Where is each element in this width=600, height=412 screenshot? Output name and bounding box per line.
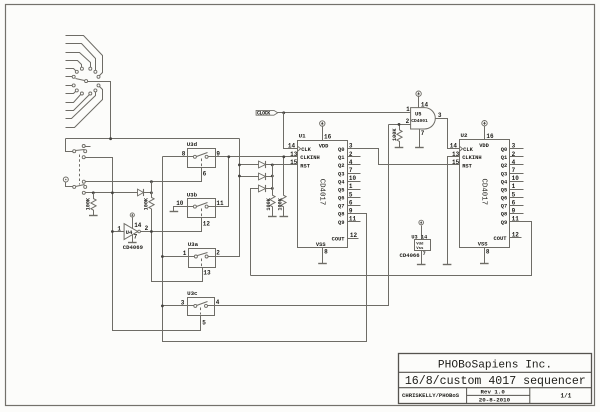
wire rotary common to mode bus [88,82,111,139]
ground U1 [318,263,327,265]
ground R4 [280,216,289,218]
svg-text:6: 6 [203,171,207,178]
svg-text:COUT: COUT [494,236,508,242]
rotary SW1 contact 7 [72,84,75,87]
wire U2 CLKINH to ground [448,157,460,265]
resistor R5 100K [397,124,402,147]
wire U3 pin7 ground lead [421,251,423,265]
rotary SW1 position-6 lead wire [66,76,74,78]
analog switch U3a box [189,249,216,268]
svg-text:16: 16 [486,133,494,140]
rotary SW1 contact 4 [80,67,83,70]
junction U4 input [111,230,114,233]
svg-text:16: 16 [324,133,332,140]
svg-text:4: 4 [512,159,516,166]
wire U2 Q5 stub [510,189,524,191]
wire U2 Q1 stub [510,156,524,158]
svg-text:7: 7 [349,167,353,174]
svg-text:1: 1 [183,250,187,257]
wire U2 Q2 stub [510,164,524,166]
wire U3d output to U1 CLKINH [216,156,298,158]
svg-text:3: 3 [438,112,442,119]
U1 CLK wedge [298,146,301,151]
gate U5 body [411,108,436,129]
svg-text:5: 5 [349,191,353,198]
power symbol U1 VDD [320,121,325,126]
wire R2 bottom to U3a control [152,232,203,282]
svg-text:5: 5 [202,319,206,326]
svg-text:RST: RST [300,163,310,169]
power symbol U2 VDD [482,121,487,126]
svg-text:VSS: VSS [478,242,488,248]
junction net192/S2a vertical [111,191,114,194]
rotary SW1 position-8 lead wire [66,91,77,94]
switch S2b upper throw contact [82,180,85,183]
diode D1 [259,161,266,168]
wire U1 COUT stub [348,238,359,240]
svg-text:6: 6 [349,199,353,206]
analog switch U3d wiper [197,153,208,157]
analog switch U3b right contact [205,205,208,208]
svg-text:Q5: Q5 [501,188,507,194]
svg-text:U4: U4 [126,229,133,236]
analog switch U3a right contact [205,255,208,258]
wire D3 row down to Q9 bus [251,189,273,276]
rotary SW1 position-1 lead wire [66,36,103,77]
rotary SW1 contact 2 [94,70,97,73]
svg-text:U3b: U3b [187,192,198,199]
svg-text:U3a: U3a [188,241,199,248]
svg-text:14: 14 [421,234,427,240]
svg-text:8: 8 [324,248,328,255]
svg-text:CD4001: CD4001 [411,118,428,124]
wire U2 Q0 stub [510,148,524,150]
svg-text:Vdd: Vdd [416,241,424,246]
analog switch U3a left contact [194,255,197,258]
svg-text:Q1: Q1 [338,155,344,161]
wire U4 pin14 power lead [132,218,134,229]
analog switch U3c box [188,298,215,316]
inverter U4 output bubble [138,230,141,233]
wire U1 Q8 net vertical and bus [163,157,367,342]
svg-text:13: 13 [290,151,298,158]
svg-text:7: 7 [512,167,516,174]
wire D2 row [240,176,273,178]
wire U2 pin16 power lead [484,126,486,140]
analog switch U3a left pin lead [189,256,195,258]
svg-text:2: 2 [512,151,516,158]
rotary SW1 contact 1 [97,75,100,78]
svg-text:Q0: Q0 [338,147,344,153]
wire U2 Q6 stub [510,197,524,199]
ground U2 [480,263,489,265]
wire U1 Q3 stub [348,173,361,175]
wire S2b lower throw through D4 [86,192,152,194]
wire U1 pin8 ground lead [322,248,324,264]
svg-text:Q7: Q7 [501,204,507,210]
switch S2a wiper [76,150,85,151]
wire U3c output bus to U5 pin2 [215,125,389,306]
svg-text:CD4017: CD4017 [318,179,326,206]
svg-text:CHRISKELLY/PHOBoS: CHRISKELLY/PHOBoS [402,392,460,399]
title block vertical divider 2 [529,388,531,404]
diode D2 [259,173,266,180]
svg-text:CLOCK: CLOCK [257,111,270,117]
wire U1 pin16 power lead [322,127,324,141]
svg-text:3: 3 [181,299,185,306]
svg-text:VDD: VDD [479,143,489,149]
rotary SW1 position-2 lead wire [66,44,96,72]
junction D2 cathode [271,175,274,178]
svg-text:14: 14 [421,102,429,109]
svg-text:100K: 100K [392,128,398,141]
svg-text:14: 14 [134,222,142,229]
wire U2 Q8 stub [510,213,524,215]
power symbol U4 VDD [130,213,134,217]
resistor R2 100K [149,193,154,232]
svg-text:CD4066: CD4066 [400,252,421,259]
svg-text:Q4: Q4 [501,179,508,185]
svg-text:PHOBoSapiens Inc.: PHOBoSapiens Inc. [438,359,552,371]
svg-text:U3: U3 [411,234,417,240]
wire U2 Q3 stub [510,173,524,175]
svg-text:9: 9 [512,207,516,214]
svg-text:Q9: Q9 [338,220,344,226]
svg-text:8: 8 [486,248,490,255]
junction Q8 net / U3c input [161,305,164,308]
wire CLOCK down to U1 CLK [284,113,298,149]
rotary SW1 position-11 lead wire [66,91,96,119]
ground R3 [268,216,277,218]
svg-text:10: 10 [349,175,357,182]
junction D3 cathode [271,187,274,190]
svg-text:U3c: U3c [187,290,198,297]
wire U1 Q1 stub [348,156,361,158]
wire U1 Q6 stub [348,197,361,199]
analog switch U3c right pin lead [208,305,215,307]
wire R3 top segment [272,165,274,193]
svg-text:Q2: Q2 [338,163,344,169]
wire U2 pin8 ground lead [484,248,486,264]
switch S2b wiper [76,185,85,187]
svg-text:VDD: VDD [319,143,329,149]
rotary SW1 position-4 lead wire [66,61,82,69]
counter U2 box [460,140,510,248]
wire U5 pin7 ground lead [419,130,421,148]
wire U2 Q4 stub [510,181,524,183]
svg-text:CD4069: CD4069 [123,244,144,251]
svg-text:CLKINH: CLKINH [462,155,481,161]
analog switch U3c control dash [200,308,202,315]
junction D1 cathode [271,164,274,167]
wire S2a lower throw to U3c control net [86,158,201,331]
svg-text:1: 1 [512,183,516,190]
rotary SW1 position-10 lead wire [66,94,91,111]
svg-text:CLK: CLK [301,147,311,153]
junction R4 / CLKINH [282,155,285,158]
analog switch U3d right contact [205,155,208,158]
junction R5 / U5 pin2 [398,123,401,126]
svg-text:CLKINH: CLKINH [300,155,319,161]
svg-text:11: 11 [216,200,224,207]
svg-text:U5: U5 [415,112,421,118]
svg-text:11: 11 [349,216,357,223]
analog switch U3a control dash [201,259,203,267]
wire U2 Q7 stub [510,205,524,207]
ground U5 [415,147,424,149]
wire CLOCK to U5 pin1 [278,112,411,114]
svg-text:1: 1 [349,183,353,190]
wire Q8 net to U3d input [163,156,188,158]
svg-text:15: 15 [452,159,460,166]
svg-text:U1: U1 [299,133,306,140]
svg-text:Rev 1.0: Rev 1.0 [481,389,506,396]
rotary SW1 position-9 lead wire [66,94,82,103]
rotary SW1 contact 11 [94,89,97,92]
mechanical link S2 dashed [79,155,81,185]
svg-text:100K: 100K [278,197,284,210]
analog switch U3d right pin lead [209,156,216,158]
svg-text:2: 2 [216,250,220,257]
wire D1 row to U1 RST [240,164,298,166]
svg-text:20-8-2010: 20-8-2010 [479,396,511,403]
ground U3b input [170,211,179,213]
svg-text:2: 2 [406,118,410,125]
analog switch U3d left contact [193,155,196,158]
wire J1 to S2b pole [66,183,73,187]
svg-text:14: 14 [450,143,458,150]
analog switch U3a wiper [198,253,208,256]
wire U5 pin2 lead [389,124,411,126]
wire S2a upper throw stub [86,146,91,148]
title block divider 2 [399,387,592,389]
rotary SW1 position-12 lead wire [66,86,103,128]
junction D4 cathode/R2 [150,191,153,194]
svg-text:2: 2 [349,151,353,158]
junction Q8 net / U3a input [161,255,164,258]
title block vertical divider 1 [466,388,468,404]
analog switch U3c wiper [197,302,208,306]
switch S2a upper throw contact [82,145,85,148]
switch S2b pole contact [73,185,76,188]
analog switch U3c left pin lead [188,305,194,307]
svg-text:1: 1 [406,106,410,113]
analog switch U3b box [188,199,216,218]
svg-text:3: 3 [512,143,516,150]
svg-text:1/1: 1/1 [561,393,572,400]
svg-text:1: 1 [117,226,121,233]
diode D3 [259,185,266,192]
analog switch U3b left pin lead [188,206,194,208]
junction D1 anode [238,164,241,167]
ground R1 [89,215,98,217]
svg-text:Q8: Q8 [338,212,344,218]
svg-text:16/8/custom 4017 sequencer: 16/8/custom 4017 sequencer [405,375,586,388]
switch S2b middle contact [84,185,87,188]
switch S2a lower throw contact [82,156,85,159]
net tag CLOCK [256,110,278,115]
svg-text:CLK: CLK [463,147,473,153]
svg-text:U3d: U3d [187,141,198,148]
rotary SW1 position-5 lead wire [66,69,77,72]
analog switch U3a right pin lead [209,256,216,258]
junction CLOCK branch [282,111,285,114]
rotary SW1 contact 10 [89,92,92,95]
svg-text:Q8: Q8 [501,212,507,218]
svg-text:Q2: Q2 [501,163,507,169]
wire U1 Q0 to U2 RST [348,149,460,165]
junction R1 top [92,191,95,194]
analog switch U3d control dash [201,159,203,167]
wire bus181 to R2 [151,182,153,195]
rotary SW1 position-7 lead wire [66,85,74,87]
svg-text:15: 15 [290,159,298,166]
analog switch U3b left contact [193,205,196,208]
rotary SW1 contact 8 [75,89,78,92]
wire U2 COUT stub [510,237,522,239]
rotary SW1 wiper pivot [85,80,88,83]
svg-text:Q3: Q3 [338,171,344,177]
connector J1 pin [63,177,68,182]
wire U4 pin7 ground lead [132,235,134,243]
svg-text:100K: 100K [85,197,91,210]
svg-text:Q3: Q3 [501,171,507,177]
title block rev divider [467,394,530,396]
rotary SW1 contact 6 [72,75,75,78]
power symbol U5 VDD [416,91,421,96]
wire U3 pin14 power lead [421,226,423,240]
analog switch U3c right contact [205,304,208,307]
wire U4 input [113,231,125,233]
junction rotary common / mode bus [109,137,112,140]
rotary SW1 wiper arm [76,79,85,81]
svg-text:4: 4 [349,159,353,166]
power symbol U3 VDD [419,220,424,225]
title block divider 1 [399,371,592,373]
svg-text:7: 7 [421,130,425,137]
svg-text:7: 7 [423,251,426,257]
svg-text:100K: 100K [143,197,149,210]
wire U5 output to U2 CLK [436,119,460,149]
switch S2a middle contact [84,150,87,153]
wire U1 Q9 stub [348,221,361,223]
svg-text:12: 12 [512,232,520,239]
junction U4 output / R2 [150,230,153,233]
wire U1 Q2 stub [348,164,361,166]
ground U3 [417,264,426,266]
title block outer box [399,354,592,404]
wire U3b output up to CLKINH net [216,157,229,207]
svg-text:12: 12 [203,221,211,228]
wire U2 Q9 to D3 bus [251,222,532,276]
wire mode bus y139 [66,138,240,140]
svg-text:10: 10 [512,175,520,182]
svg-text:Q6: Q6 [501,196,507,202]
diode D4 [138,189,144,196]
svg-text:7: 7 [134,234,138,241]
svg-text:VSS: VSS [316,242,326,248]
wire U5 pin14 power lead [418,97,420,108]
svg-text:6: 6 [512,199,516,206]
svg-text:Q4: Q4 [338,179,345,185]
svg-text:13: 13 [203,269,211,276]
U2 CLK wedge [460,146,463,151]
svg-text:9: 9 [349,207,353,214]
rotary SW1 position-3 lead wire [66,53,91,69]
svg-text:3: 3 [349,143,353,150]
counter U1 box [298,141,348,248]
rotary SW1 contact 3 [89,67,92,70]
wire U1 Q4 stub [348,181,361,183]
svg-text:5: 5 [512,191,516,198]
svg-text:CD4017: CD4017 [479,178,487,205]
resistor R3 100K [270,165,275,217]
switch S2b lower throw contact [82,191,85,194]
resistor R4 100K [281,157,286,217]
wire U4 output to U3b control [141,218,202,232]
rotary SW1 contact 9 [80,92,83,95]
wire U1 Q5 stub [348,189,361,191]
U3 power block box [415,240,431,251]
svg-text:Q6: Q6 [338,196,344,202]
junction D2 anode [238,175,241,178]
svg-text:Q0: Q0 [501,147,507,153]
svg-text:U2: U2 [461,132,468,139]
ground U4 [128,242,137,244]
svg-text:8: 8 [182,151,186,158]
wire U3b input to ground [174,207,188,212]
svg-text:100K: 100K [266,197,272,210]
analog switch U3b wiper [197,203,208,207]
switch S2a pole contact [73,150,76,153]
svg-text:Q9: Q9 [501,220,507,226]
wire Q8 net to U3a input [163,256,189,258]
ground U2 CLKINH [443,264,452,266]
wire mode bus to S2a pole [66,139,73,152]
wire S2b upper throw to U3d control [86,168,202,182]
svg-text:RST: RST [462,163,472,169]
resistor R1 100K [91,193,96,216]
rotary SW1 contact 5 [75,70,78,73]
inverter U4 triangle [124,224,138,240]
wire U3a output / diode anode column [216,139,240,257]
analog switch U3b control dash [201,209,203,217]
junction U3d out / U3b out [227,155,230,158]
analog switch U3d box [188,149,216,168]
analog switch U3b right pin lead [209,206,216,208]
svg-text:Q5: Q5 [338,188,344,194]
svg-text:2: 2 [145,225,149,232]
wire U1 Q7 stub [348,205,361,207]
svg-text:12: 12 [350,232,358,239]
svg-text:Q7: Q7 [338,204,344,210]
svg-text:Q1: Q1 [501,155,507,161]
analog switch U3c left contact [194,304,197,307]
junction bus181/R2 drop [150,180,153,183]
ground R5 [395,147,404,149]
analog switch U3d left pin lead [188,156,194,158]
svg-text:14: 14 [288,143,296,150]
svg-text:COUT: COUT [332,237,346,243]
wire Q8 net to U3c input [163,305,188,307]
rotary SW1 contact 12 [97,84,100,87]
